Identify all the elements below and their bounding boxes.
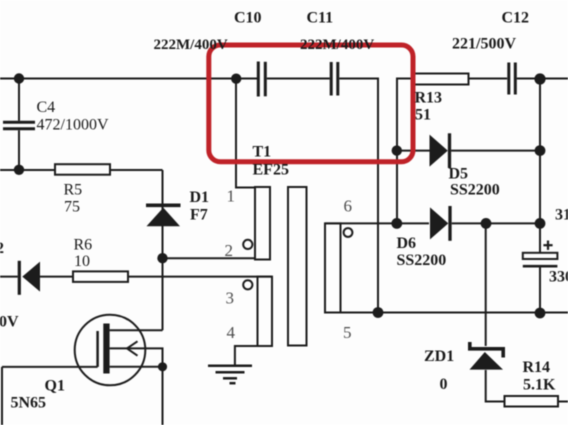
svg-text:4: 4 [227, 323, 236, 342]
svg-text:6: 6 [344, 197, 353, 216]
svg-text:0V: 0V [0, 314, 19, 331]
svg-text:5N65: 5N65 [11, 395, 47, 412]
svg-text:10: 10 [74, 253, 90, 270]
svg-text:D5: D5 [449, 166, 469, 183]
svg-text:T1: T1 [253, 144, 272, 161]
svg-text:5: 5 [343, 323, 352, 342]
svg-text:2: 2 [225, 241, 234, 260]
svg-text:R5: R5 [64, 182, 83, 199]
svg-text:3: 3 [226, 289, 235, 308]
svg-text:75: 75 [64, 199, 80, 216]
svg-text:5.1K: 5.1K [523, 377, 556, 394]
svg-text:EF25: EF25 [253, 162, 289, 179]
svg-text:222M/400V: 222M/400V [300, 37, 374, 53]
svg-text:Q1: Q1 [45, 378, 65, 395]
svg-text:222M/400V: 222M/400V [154, 37, 228, 53]
svg-text:2: 2 [0, 240, 4, 257]
svg-text:R6: R6 [74, 237, 93, 254]
svg-text:330: 330 [549, 269, 568, 286]
svg-text:C12: C12 [502, 10, 530, 27]
svg-text:R13: R13 [415, 90, 443, 107]
svg-text:D6: D6 [397, 235, 417, 252]
svg-text:ZD1: ZD1 [424, 348, 454, 365]
svg-text:C4: C4 [37, 99, 56, 116]
svg-text:51: 51 [415, 107, 431, 124]
svg-text:C11: C11 [307, 10, 334, 27]
svg-text:C10: C10 [234, 10, 262, 27]
svg-text:SS2200: SS2200 [450, 182, 500, 199]
svg-text:472/1000V: 472/1000V [37, 117, 109, 134]
svg-text:R14: R14 [523, 359, 551, 376]
svg-text:SS2200: SS2200 [397, 252, 447, 269]
svg-text:0: 0 [440, 376, 448, 393]
svg-text:F7: F7 [190, 207, 208, 224]
svg-text:D1: D1 [190, 189, 210, 206]
svg-text:31: 31 [555, 207, 568, 224]
svg-text:221/500V: 221/500V [452, 36, 516, 53]
svg-text:1: 1 [227, 187, 236, 206]
